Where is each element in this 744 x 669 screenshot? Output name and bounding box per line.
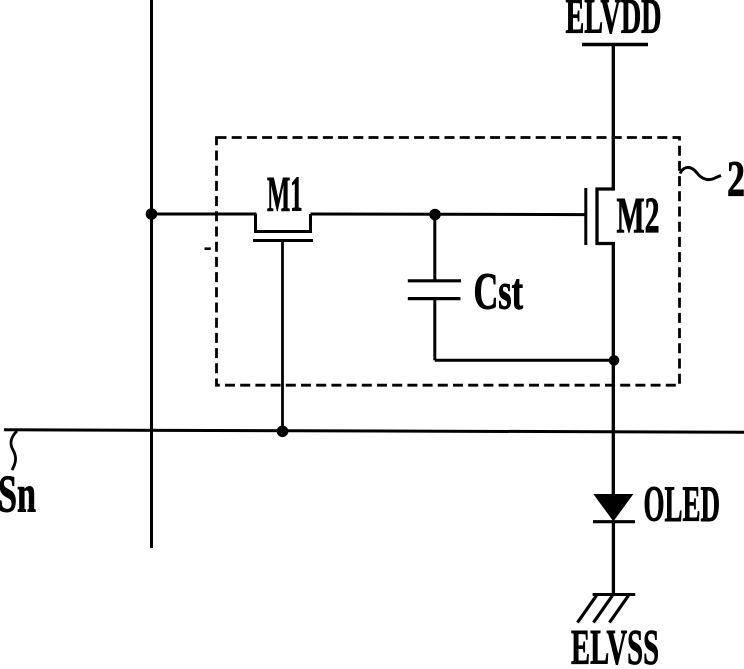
label Sn: [0, 466, 36, 524]
ground ELVSS symbol: bar: [593, 593, 636, 596]
svg-text:Sn: Sn: [0, 466, 36, 524]
transistor M1 (source/drain notch + channel): [256, 214, 311, 232]
capacitor Cst top lead: [433, 215, 436, 282]
svg-text:ELVDD: ELVDD: [566, 0, 662, 44]
squiggle lead to Sn label: [11, 431, 17, 470]
label 2: [727, 152, 744, 208]
wire: capacitor bottom to M2 drain: [435, 359, 614, 362]
svg-text:M1: M1: [267, 166, 303, 222]
node dot at scan line / M1 gate: [277, 426, 289, 438]
svg-text:2: 2: [727, 152, 744, 208]
M1 gate lead down to scan line: [281, 241, 284, 432]
ELVDD supply line through transistor M2 source/drain: [597, 45, 613, 495]
label OLED: [644, 477, 721, 533]
ground hatch stroke 3: [610, 596, 629, 623]
wire: OLED cathode to ground: [612, 522, 615, 595]
OLED diode triangle (anode): [594, 495, 632, 521]
svg-text:ELVSS: ELVSS: [571, 619, 659, 669]
ground hatch stroke 2: [594, 596, 613, 623]
capacitor Cst bottom plate: [408, 297, 461, 300]
label M2: [617, 189, 660, 245]
node dot at M2 drain / cap bottom: [609, 355, 620, 366]
svg-text:M2: M2: [617, 189, 660, 245]
label M1: [267, 166, 303, 222]
scan line Sn (horizontal): [4, 430, 744, 432]
svg-text:OLED: OLED: [644, 477, 721, 533]
data line (left vertical): [150, 0, 153, 548]
label ELVSS: [571, 619, 659, 669]
wire: M1 drain to M2 gate: [311, 213, 585, 217]
ELVDD terminal bar: [582, 43, 648, 46]
OLED cathode bar: [593, 520, 635, 523]
dashed pixel circuit boundary box: [217, 138, 680, 386]
capacitor Cst bottom lead: [433, 299, 436, 361]
node dot at capacitor tap: [429, 209, 441, 221]
wire: data line to M1 source (with node): [152, 213, 257, 216]
label ELVDD: [566, 0, 662, 44]
squiggle to label 2: [680, 167, 721, 179]
node dot at data line: [146, 208, 158, 220]
stray dash mark left of box: [205, 247, 211, 250]
transistor M1 gate bar: [253, 239, 313, 242]
capacitor Cst top plate: [408, 279, 461, 282]
svg-text:Cst: Cst: [474, 264, 524, 321]
label Cst: [474, 264, 524, 321]
transistor M2 gate bar: [584, 188, 587, 245]
ground hatch stroke 1: [578, 596, 597, 623]
